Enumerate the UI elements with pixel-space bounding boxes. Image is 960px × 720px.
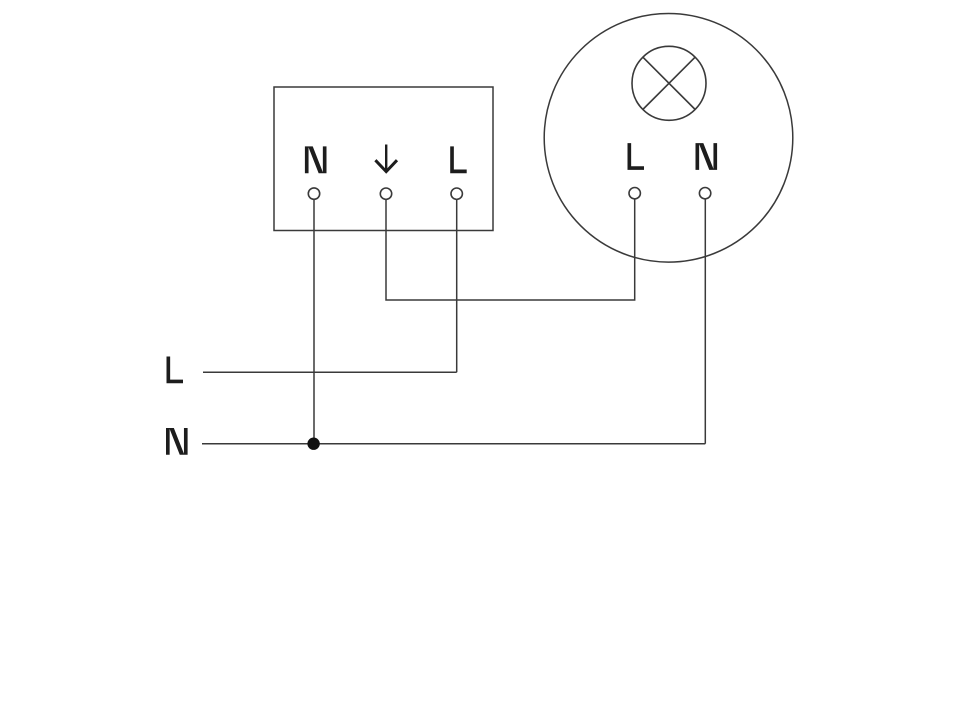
L supply line — [203, 371, 457, 373]
lamp terminal L — [629, 188, 640, 199]
label N (supply) — [166, 428, 188, 455]
lamp symbol X — [643, 57, 695, 109]
junction dot — [307, 438, 319, 450]
terminal N of box — [308, 188, 319, 199]
label N (box terminal) — [305, 146, 327, 173]
label L (supply) — [167, 357, 184, 384]
wire N supply up to lamp N terminal — [704, 199, 706, 444]
terminal arrow of box — [380, 188, 391, 199]
label N (lamp) — [696, 143, 718, 170]
label L (lamp) — [628, 143, 645, 170]
terminal L of box — [451, 188, 462, 199]
wire box arrow terminal to lamp L — [386, 199, 635, 300]
wire box N terminal to junction — [313, 199, 315, 443]
luminaire circle — [544, 14, 793, 263]
lamp symbol circle — [632, 46, 706, 120]
N supply line — [202, 443, 705, 445]
label L (box terminal) — [450, 146, 467, 173]
lamp terminal N — [699, 188, 710, 199]
wire box L terminal down to L supply — [456, 199, 458, 372]
arrow symbol (switched live) — [375, 145, 397, 172]
sensor terminal box — [274, 87, 493, 231]
